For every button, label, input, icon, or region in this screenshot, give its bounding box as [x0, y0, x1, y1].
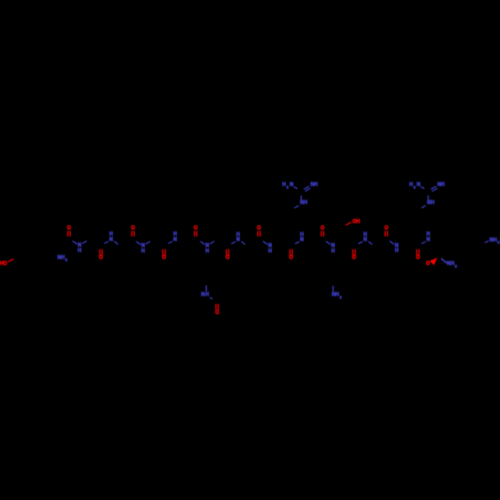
amide N3 bond to alpha C (right): [146, 241, 150, 244]
svg-text:O: O: [215, 310, 219, 316]
svg-text:H: H: [395, 248, 399, 254]
svg-text:H: H: [441, 182, 445, 188]
carbonyl #4 C=O double bond: [162, 249, 164, 255]
svg-text:2: 2: [455, 264, 457, 268]
svg-text:N: N: [417, 182, 421, 188]
lysine NH2 bond (vertical): [332, 286, 334, 292]
arginine 2 H2N-C bond: [421, 187, 425, 189]
svg-text:N: N: [109, 237, 113, 243]
svg-text:H: H: [268, 248, 272, 254]
svg-text:O: O: [3, 261, 7, 267]
svg-text:2: 2: [65, 258, 67, 262]
carbonyl #3 C=O double bond: [131, 231, 133, 237]
carbonyl #7 C=O double bond: [257, 231, 259, 237]
amide N8 bond to carbonyl (left): [295, 242, 299, 244]
amide N10 bond to alpha C (right): [368, 241, 372, 244]
arginine 1 C-NH bond (vertical): [300, 195, 302, 200]
amide N5 bond to carbonyl (left): [200, 241, 205, 244]
phenol O-C bond stub: [8, 259, 13, 262]
carbonyl #6 C=O double bond: [225, 249, 227, 255]
arginine 1 C=NH double bond: [304, 186, 309, 189]
amide N6 bond to carbonyl (left): [231, 242, 235, 244]
carbonyl #8 C=O double bond: [289, 249, 291, 255]
amide N5 bond to alpha C (right): [210, 241, 214, 244]
svg-text:H: H: [205, 292, 209, 298]
svg-text:O: O: [352, 255, 356, 261]
side-chain NH2 bond stub (right edge): [485, 241, 489, 243]
C-terminal amide hashed bond to NH2: [442, 258, 443, 260]
amide N1 bond to carbonyl (left): [73, 241, 78, 244]
svg-text:H: H: [205, 248, 209, 254]
amide N4 bond to carbonyl (left): [168, 242, 172, 244]
amide N11 bond to carbonyl (left): [390, 241, 395, 244]
svg-text:O: O: [289, 255, 293, 261]
arginine 2 C-NH bond (vertical): [427, 195, 429, 200]
svg-text:O: O: [257, 225, 261, 231]
svg-text:2: 2: [286, 186, 288, 190]
svg-text:H: H: [141, 248, 145, 254]
carbonyl #10 C=O double bond: [352, 249, 354, 255]
svg-text:O: O: [321, 225, 325, 231]
svg-text:O: O: [426, 261, 430, 267]
acetamido C=O double bond: [215, 304, 217, 310]
arginine 2 C=NH double bond: [431, 186, 436, 189]
carbonyl #2 C=O double bond: [99, 249, 101, 255]
serine C-OH bond stub: [346, 222, 351, 225]
carbonyl #11 C=O double bond: [384, 231, 386, 237]
svg-text:H: H: [331, 248, 335, 254]
svg-text:O: O: [67, 225, 71, 231]
svg-text:O: O: [131, 225, 135, 231]
amide N10 bond to carbonyl (left): [358, 242, 362, 244]
svg-text:N: N: [300, 237, 304, 243]
svg-text:O: O: [162, 255, 166, 261]
svg-text:2: 2: [340, 295, 342, 299]
svg-text:N: N: [426, 237, 430, 243]
amide N1 bond to alpha C (right): [82, 241, 86, 244]
carbonyl #9 C=O double bond: [320, 231, 322, 237]
svg-text:H: H: [314, 182, 318, 188]
amide N12 bond to carbonyl (left): [421, 242, 425, 244]
carbonyl #12 C=O double bond: [416, 249, 418, 255]
arginine 1 H2N-C bond: [294, 187, 298, 189]
arginine 1 NH-CH2 bond: [294, 206, 298, 209]
acetamido N-C bond: [210, 297, 213, 299]
svg-text:N: N: [363, 237, 367, 243]
svg-text:H: H: [356, 219, 360, 225]
amide N2 bond to alpha C (right): [114, 241, 118, 244]
svg-text:2: 2: [413, 186, 415, 190]
svg-text:H: H: [78, 248, 82, 254]
carbonyl #1 C=O double bond: [67, 231, 69, 237]
amide N7 bond to carbonyl (left): [263, 241, 268, 244]
amide N6 bond to alpha C (right): [241, 241, 245, 244]
svg-text:O: O: [194, 225, 198, 231]
svg-text:O: O: [226, 255, 230, 261]
arginine 2 NH-CH2 bond: [421, 206, 425, 209]
svg-text:H: H: [431, 200, 435, 206]
amide N9 bond to carbonyl (left): [326, 241, 331, 244]
carbonyl #5 C=O double bond: [193, 231, 195, 237]
svg-text:H: H: [304, 200, 308, 206]
svg-text:O: O: [416, 255, 420, 261]
amide N3 bond to carbonyl (left): [136, 241, 141, 244]
svg-text:N: N: [173, 237, 177, 243]
svg-text:O: O: [99, 255, 103, 261]
acetamido N-CH2 bond (vertical): [205, 286, 207, 292]
svg-text:2: 2: [497, 241, 499, 245]
C-terminal C=O wedge bond: [430, 258, 438, 266]
svg-text:N: N: [236, 237, 240, 243]
svg-text:N: N: [290, 182, 294, 188]
svg-text:O: O: [384, 225, 388, 231]
amide N2 bond to carbonyl (left): [104, 242, 108, 244]
